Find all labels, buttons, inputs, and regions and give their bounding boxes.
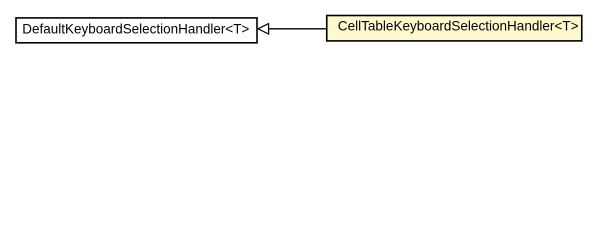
background [0,0,597,59]
svg-text:CellTableKeyboardSelectionHand: CellTableKeyboardSelectionHandler<T> [338,18,579,34]
wire inheritance edge [269,28,326,30]
class box DefaultKeyboardSelectionHandler<T> [16,18,257,43]
arrowhead hollow triangle (generalization) [258,24,269,34]
svg-text:DefaultKeyboardSelectionHandle: DefaultKeyboardSelectionHandler<T> [22,21,249,37]
class box CellTableKeyboardSelectionHandler<T> [327,16,582,41]
